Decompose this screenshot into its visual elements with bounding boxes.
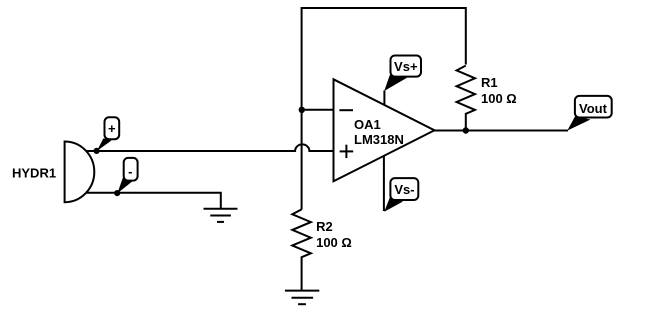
svg-text:HYDR1: HYDR1: [12, 166, 56, 181]
svg-text:LM318N: LM318N: [354, 132, 404, 147]
svg-text:100 Ω: 100 Ω: [316, 235, 352, 250]
svg-text:OA1: OA1: [354, 117, 381, 132]
svg-text:Vs+: Vs+: [394, 59, 418, 74]
svg-text:R2: R2: [316, 219, 333, 234]
svg-text:100 Ω: 100 Ω: [481, 91, 517, 106]
svg-text:R1: R1: [481, 75, 498, 90]
svg-text:Vout: Vout: [579, 101, 608, 116]
svg-text:Vs-: Vs-: [394, 182, 414, 197]
svg-text:-: -: [128, 164, 132, 179]
svg-text:+: +: [108, 121, 116, 136]
